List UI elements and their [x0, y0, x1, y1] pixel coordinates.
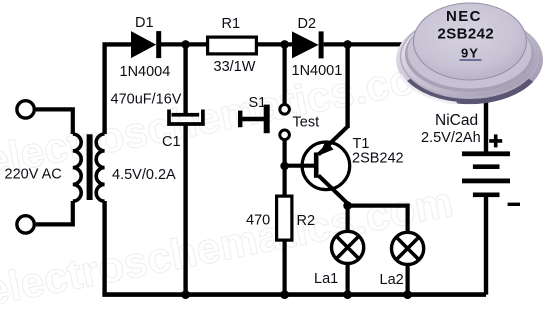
wire: T1 emitter up to node C: [345, 46, 349, 128]
wire: R2 to bottom rail: [283, 240, 287, 295]
svg-text:33/1W: 33/1W: [214, 59, 256, 75]
svg-text:Test: Test: [293, 115, 320, 131]
wire: D1 cathode to node A: [161, 42, 207, 46]
svg-text:NEC: NEC: [446, 8, 482, 25]
svg-text:9Y: 9Y: [461, 46, 479, 61]
lamp La1: [332, 231, 364, 263]
watermark: [0, 48, 457, 315]
transformer TR: top terminal: [17, 101, 34, 118]
node I: La2 on bottom rail: [403, 290, 412, 299]
wire: node D to T1 base: [286, 164, 314, 168]
wire: D2 cathode to photo area: [324, 42, 402, 46]
svg-text:220V AC: 220V AC: [5, 166, 62, 182]
svg-text:NiCad: NiCad: [435, 112, 478, 129]
lamp La2: [392, 232, 424, 264]
transistor T1 emitter arrow: [319, 140, 334, 155]
transistor T1 base bar: [314, 152, 319, 177]
node G: R2 on bottom rail: [280, 290, 289, 299]
battery plate 4 (short -): [473, 193, 500, 198]
svg-text:2SB242: 2SB242: [438, 26, 495, 43]
svg-text:2.5V/2Ah: 2.5V/2Ah: [421, 130, 481, 146]
node A: junction of D1 / R1 / C1: [181, 40, 190, 49]
svg-text:D1: D1: [135, 15, 154, 31]
NEC 2SB242 transistor photo: [396, 3, 543, 104]
node D: junction S1 / R2 / T1 base: [280, 162, 289, 171]
svg-text:4.5V/0.2A: 4.5V/0.2A: [112, 167, 176, 183]
wire: node A down to C1: [183, 46, 187, 114]
wire: S1 to node D: [283, 140, 287, 196]
bottom rail: [102, 292, 486, 297]
switch S1 actuator (push button): [238, 111, 242, 128]
svg-text:1N4004: 1N4004: [120, 64, 171, 80]
svg-text:1N4001: 1N4001: [292, 63, 343, 79]
wire: battery positive lead: [484, 98, 488, 152]
battery minus sign: [508, 203, 520, 206]
switch S1 top contact: [280, 105, 290, 115]
svg-text:R2: R2: [297, 213, 316, 229]
diode D2: [292, 31, 319, 58]
svg-text:470uF/16V: 470uF/16V: [111, 91, 182, 107]
wire: secondary top lead + top rail to D1 anode: [105, 44, 131, 134]
svg-text:S1: S1: [249, 95, 267, 111]
transformer secondary winding: [96, 134, 104, 201]
transistor T1 collector diagonal: [319, 176, 348, 204]
transformer TR: bottom terminal: [17, 216, 34, 233]
transistor T1 2SB242 circle: [302, 142, 350, 190]
node C: junction D2 / T1 emitter: [343, 40, 352, 49]
transistor T1 emitter diagonal: [319, 127, 348, 155]
transformer core: [87, 134, 93, 200]
wire: La2 to bottom rail: [406, 265, 410, 295]
node F: C1 on bottom rail: [181, 290, 190, 299]
wire: battery negative lead to bottom rail: [484, 197, 488, 295]
wire: node E to La2 top: [348, 206, 408, 231]
wire: node B down to switch S1: [283, 46, 287, 105]
svg-text:R1: R1: [222, 16, 241, 32]
svg-text:D2: D2: [298, 16, 317, 32]
battery plus sign: [489, 134, 502, 147]
switch S1 bottom contact: [280, 130, 290, 140]
svg-text:2SB242: 2SB242: [352, 150, 404, 166]
svg-text:La1: La1: [314, 271, 338, 287]
battery plate 3 (long): [462, 179, 510, 184]
wire: R1 to node B: [256, 42, 293, 46]
svg-text:C1: C1: [162, 134, 181, 150]
node B: junction R1 / D2 / S1: [280, 40, 289, 49]
diode D1: [131, 31, 156, 58]
wire: secondary bottom to bottom rail: [102, 201, 106, 295]
battery plate 2 (short): [473, 164, 500, 169]
wire: primary bottom to bottom terminal: [36, 201, 73, 224]
resistor R2 470: [277, 196, 292, 240]
wire: node E to La1 top: [346, 208, 350, 230]
capacitor C1 : cup plate: [169, 110, 203, 125]
wire: C1 to bottom rail: [183, 124, 187, 295]
wire: La1 to bottom rail: [346, 264, 350, 295]
svg-text:La2: La2: [380, 272, 404, 288]
node E: collector / lamps junction: [343, 201, 352, 210]
wire: top terminal to primary: [36, 109, 73, 134]
svg-text:470: 470: [246, 212, 270, 228]
resistor R1 33/1W: [208, 37, 257, 54]
node H: La1 on bottom rail: [343, 290, 352, 299]
transformer primary winding: [73, 134, 81, 201]
battery plate 1 (long +): [462, 151, 510, 156]
capacitor C1 470uF/16V : top plate: [172, 113, 200, 117]
